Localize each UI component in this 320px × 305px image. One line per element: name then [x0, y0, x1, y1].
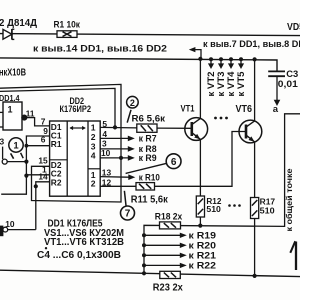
svg-text:R23 2х: R23 2х	[153, 282, 183, 293]
svg-text:VT1...VT6 КТ312В: VT1...VT6 КТ312В	[44, 237, 124, 248]
svg-text:к выв.7 DD1, выв.8 DD2: к выв.7 DD1, выв.8 DD2	[203, 39, 300, 50]
svg-text:3: 3	[102, 138, 107, 148]
svg-text:11: 11	[26, 109, 35, 118]
svg-text:к R20: к R20	[189, 240, 217, 250]
svg-text:VD5: VD5	[287, 22, 300, 33]
svg-text:3: 3	[0, 136, 5, 146]
svg-text:а: а	[273, 104, 279, 115]
svg-text:0,01: 0,01	[278, 79, 298, 89]
svg-text:VT6: VT6	[236, 104, 253, 115]
svg-text:R11 5,6к: R11 5,6к	[131, 194, 169, 205]
svg-text:4: 4	[91, 150, 96, 160]
svg-text:к VT4: к VT4	[226, 72, 236, 97]
svg-text:510: 510	[260, 205, 275, 215]
svg-text:5: 5	[102, 119, 107, 129]
svg-text:1: 1	[13, 141, 19, 152]
svg-text:к VT5: к VT5	[236, 72, 246, 97]
svg-text:R2: R2	[51, 177, 62, 187]
svg-text:к общей точке: к общей точке	[284, 168, 294, 231]
svg-text:13: 13	[102, 168, 112, 178]
svg-text:6: 6	[41, 134, 46, 144]
svg-text:К176ИР2: К176ИР2	[60, 104, 92, 114]
svg-text:к R21: к R21	[189, 250, 217, 260]
svg-text:к R19: к R19	[189, 230, 217, 240]
svg-text:к R7: к R7	[139, 134, 157, 144]
svg-text:10: 10	[5, 219, 15, 229]
svg-text:2 Д814Д: 2 Д814Д	[0, 17, 37, 29]
svg-text:510: 510	[206, 204, 221, 214]
svg-text:к R22: к R22	[189, 261, 217, 271]
svg-text:C4 ...C6 0,1x300В: C4 ...C6 0,1x300В	[37, 250, 121, 261]
svg-text:R1: R1	[51, 139, 62, 149]
svg-text:R6 5,6к: R6 5,6к	[132, 113, 166, 123]
svg-text:к R9: к R9	[139, 153, 157, 163]
svg-text:10: 10	[101, 148, 111, 158]
svg-text:R1 10к: R1 10к	[54, 19, 81, 29]
svg-text:к R10: к R10	[139, 172, 160, 182]
svg-text:нкХ10В: нкХ10В	[0, 67, 26, 78]
svg-text:2: 2	[130, 98, 135, 108]
svg-text:R18 2х: R18 2х	[155, 211, 183, 222]
svg-text:к VT3: к VT3	[216, 72, 226, 97]
svg-text:VT1: VT1	[181, 103, 196, 114]
svg-text:к выв.14 DD1, выв.16 DD2: к выв.14 DD1, выв.16 DD2	[33, 43, 167, 54]
svg-text:2: 2	[91, 178, 96, 188]
svg-text:12: 12	[102, 177, 112, 187]
svg-text:6: 6	[171, 157, 177, 168]
svg-text:1: 1	[8, 105, 13, 115]
svg-text:к VT2: к VT2	[206, 72, 216, 97]
svg-text:7: 7	[125, 209, 131, 220]
svg-text:14: 14	[38, 171, 48, 181]
svg-text:DD1.4: DD1.4	[0, 93, 20, 103]
